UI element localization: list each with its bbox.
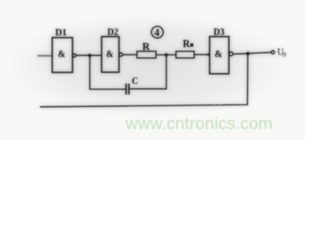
svg-text:&: & [58,49,66,59]
svg-text:D1: D1 [55,28,67,38]
svg-text:4: 4 [154,28,160,39]
svg-text:D2: D2 [107,27,118,37]
svg-text:R: R [142,42,150,53]
svg-text:&: & [215,50,223,60]
svg-text:0: 0 [283,52,286,59]
svg-text:C: C [132,76,139,86]
svg-text:&: & [106,49,114,59]
svg-text:D3: D3 [214,27,225,37]
svg-text:R: R [183,39,191,50]
